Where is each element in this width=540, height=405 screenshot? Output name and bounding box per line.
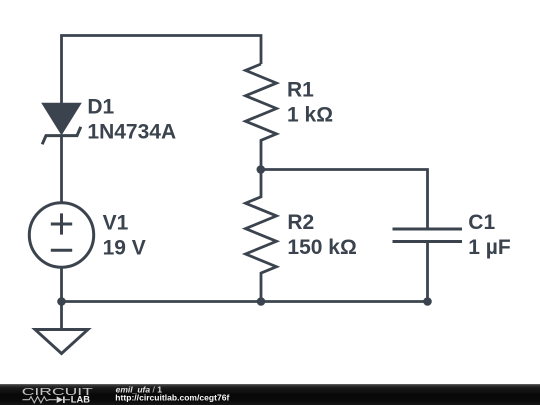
svg-text:LAB: LAB <box>71 394 90 404</box>
wire C1 lower lead <box>426 242 429 302</box>
svg-text:1 kΩ: 1 kΩ <box>287 103 333 126</box>
wire ground rail <box>62 300 428 303</box>
voltage source V1 <box>29 203 93 267</box>
svg-text:19 V: 19 V <box>103 237 146 260</box>
label R1 <box>287 78 333 126</box>
ground <box>35 330 88 354</box>
resistor R1 <box>246 64 277 170</box>
node junction R1/R2 <box>257 165 266 174</box>
node junction ground-left <box>57 297 66 306</box>
svg-text:http://circuitlab.com/cegt76f: http://circuitlab.com/cegt76f <box>115 393 229 403</box>
svg-text:R1: R1 <box>287 78 314 101</box>
svg-text:1 µF: 1 µF <box>468 236 511 259</box>
diode D1 (zener) <box>42 104 81 145</box>
label D1 <box>87 96 176 144</box>
svg-text:150 kΩ: 150 kΩ <box>287 236 356 259</box>
svg-text:1N4734A: 1N4734A <box>87 121 176 144</box>
svg-text:R2: R2 <box>287 211 314 234</box>
resistor R2 <box>246 170 277 302</box>
CircuitLab logo <box>22 387 93 405</box>
node junction R2-bottom <box>257 297 266 306</box>
label C1 <box>468 211 511 259</box>
label V1 <box>103 212 146 260</box>
wire D1 to V1 <box>60 136 63 203</box>
svg-text:C1: C1 <box>468 211 495 234</box>
wire middle <box>261 170 428 230</box>
label R2 <box>287 211 356 259</box>
capacitor C1 <box>393 229 463 242</box>
svg-text:V1: V1 <box>103 212 129 235</box>
wire top <box>62 36 262 105</box>
wire bottom <box>60 267 63 329</box>
svg-text:D1: D1 <box>87 96 114 119</box>
footer text <box>115 384 229 402</box>
node junction C1-bottom <box>423 297 432 306</box>
footer bar <box>0 384 540 405</box>
